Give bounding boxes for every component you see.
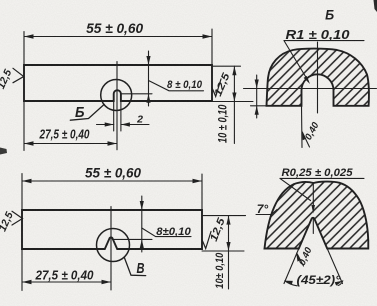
notch left wall extension below base (detail Б) (301, 106, 304, 148)
detail В hatched body (265, 182, 369, 249)
base extension to the left (detail Б) (251, 105, 267, 107)
leader 0,40 (detail В) (297, 254, 303, 266)
leader to label В (124, 257, 146, 276)
notch wall extension lines (top bar) (114, 101, 121, 131)
leader shelf for 8±0,10 (bottom) (142, 228, 191, 237)
R0,25 leader to apex (280, 178, 311, 200)
bar outline (top bar) (24, 65, 212, 101)
depth line at notch apex level (bottom bar) (113, 238, 153, 240)
detail Б hatched body (267, 49, 369, 106)
bar outline (bottom bar) (22, 210, 202, 249)
depth line at notch root (top bar) (121, 93, 152, 95)
scan noise overlay (0, 0, 1, 1)
dimension line 55±0,60 (top) (24, 36, 212, 38)
detail Б center line (317, 42, 319, 113)
leader 0,40 (detail Б) (302, 132, 309, 147)
left extension line (bottom bar) (21, 174, 23, 291)
R1±0,10 shelf and text (284, 40, 364, 42)
dimension 8±0,10 (top): vertical line with outside arrows (148, 51, 150, 106)
right edge extension above bar (bottom bar) (201, 174, 203, 210)
label 7° with shelf (detail В) (256, 210, 277, 215)
dimension line 55±0,60 (bottom) (22, 180, 202, 182)
V-notch side extension lines below base (detail В) (284, 249, 343, 284)
R0,25±0,025 shelf and text (280, 177, 364, 179)
detail circle В (97, 229, 130, 262)
dimension line 27,5±0,40 (bottom) (22, 281, 111, 283)
left extension line (top bar) (23, 32, 25, 151)
notch center line (bottom bar) (110, 207, 112, 291)
scan artifact top-right corner (374, 0, 377, 12)
dimension 2 (notch width, outside arrows) (97, 124, 150, 126)
extension lines for 10±0,10 (top bar right) (212, 66, 253, 101)
dimension line 27,5±0,40 (top) (24, 143, 117, 145)
dimension 8±0,10 (bottom): vertical line with outside arrows (141, 196, 143, 252)
long horizontal extension line through detail Б (244, 88, 377, 90)
dimension 10±0,10 (top bar) (233, 66, 235, 143)
roughness mark 12,5 left (bottom bar) (12, 211, 23, 225)
dimension 10±0,10 (bottom bar) (228, 216, 230, 289)
detail circle Б (101, 80, 132, 111)
scan artifact left edge (0, 148, 7, 155)
roughness mark 12,5 left (top bar) (13, 68, 24, 82)
small vertical dimension (detail Б, outside arrows) (256, 75, 258, 118)
extension lines for 10±0,10 (bottom bar right) (202, 216, 246, 251)
detail В center line (312, 184, 314, 234)
roughness mark 12,5 right (bottom bar) (202, 232, 211, 249)
notch center line (top bar) (116, 62, 118, 150)
angle arc (45±2)° with arrows (285, 281, 343, 286)
roughness mark 12,5 right (top bar) (212, 79, 221, 97)
leader shelf for 8±0,10 (top) (149, 81, 204, 91)
right edge extension above bar (top bar) (211, 29, 213, 65)
R1 leader with arrow to notch arc (284, 41, 309, 82)
leader to label Б (70, 104, 104, 120)
